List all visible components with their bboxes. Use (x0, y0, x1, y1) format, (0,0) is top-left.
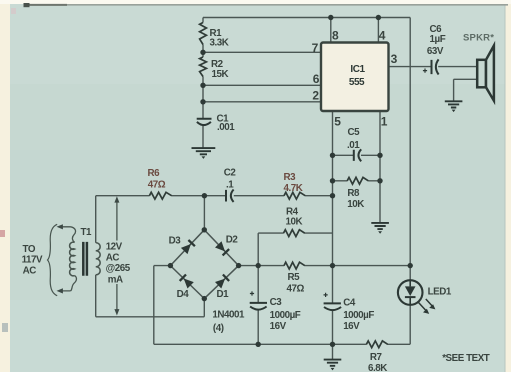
svg-text:10K: 10K (347, 199, 364, 210)
svg-text:7: 7 (312, 41, 319, 55)
svg-text:1N4001: 1N4001 (212, 309, 245, 320)
svg-text:mA: mA (108, 274, 123, 285)
svg-text:1000µF: 1000µF (270, 310, 301, 321)
svg-text:AC: AC (106, 253, 120, 264)
svg-text:1: 1 (381, 115, 388, 129)
svg-text:AC: AC (23, 266, 37, 277)
svg-text:*SEE TEXT: *SEE TEXT (442, 353, 490, 364)
svg-text:.001: .001 (217, 122, 235, 133)
svg-text:3.3K: 3.3K (210, 37, 229, 48)
svg-text:16V: 16V (343, 321, 360, 332)
svg-text:117V: 117V (22, 255, 43, 266)
svg-text:8: 8 (332, 28, 339, 42)
svg-text:IC1: IC1 (350, 64, 365, 75)
svg-text:T1: T1 (81, 227, 93, 238)
svg-text:4.7K: 4.7K (284, 183, 303, 194)
svg-text:D4: D4 (177, 289, 190, 300)
svg-text:D1: D1 (217, 289, 230, 300)
svg-text:47Ω: 47Ω (148, 179, 166, 190)
svg-text:47Ω: 47Ω (287, 284, 305, 295)
svg-text:R8: R8 (347, 188, 360, 199)
svg-text:R5: R5 (288, 272, 301, 283)
svg-text:2: 2 (312, 89, 319, 103)
svg-text:C5: C5 (348, 127, 361, 138)
svg-text:10K: 10K (286, 217, 303, 228)
svg-text:5: 5 (334, 115, 341, 129)
svg-text:R6: R6 (148, 168, 161, 179)
svg-text:TO: TO (23, 244, 36, 255)
svg-text:.01: .01 (347, 140, 360, 151)
svg-text:16V: 16V (270, 321, 287, 332)
svg-text:6: 6 (313, 72, 320, 86)
svg-text:1µF: 1µF (430, 34, 446, 45)
svg-text:@265: @265 (106, 263, 131, 274)
svg-text:12V: 12V (106, 241, 123, 252)
svg-text:(4): (4) (213, 323, 224, 334)
svg-text:15K: 15K (212, 69, 229, 80)
svg-text:1000µF: 1000µF (343, 310, 374, 321)
svg-text:SPKR*: SPKR* (463, 32, 494, 43)
svg-text:63V: 63V (427, 46, 444, 57)
svg-text:R3: R3 (284, 172, 297, 183)
svg-text:555: 555 (349, 77, 365, 88)
svg-text:3: 3 (391, 52, 398, 66)
svg-text:R7: R7 (370, 352, 383, 363)
svg-text:C2: C2 (224, 168, 237, 179)
svg-text:D3: D3 (169, 236, 182, 247)
svg-text:D2: D2 (226, 234, 239, 245)
svg-text:4: 4 (379, 28, 386, 42)
svg-text:.1: .1 (226, 180, 234, 191)
svg-text:LED1: LED1 (428, 287, 452, 298)
svg-text:C4: C4 (343, 298, 356, 309)
svg-text:C3: C3 (270, 297, 283, 308)
svg-text:6.8K: 6.8K (368, 363, 387, 372)
